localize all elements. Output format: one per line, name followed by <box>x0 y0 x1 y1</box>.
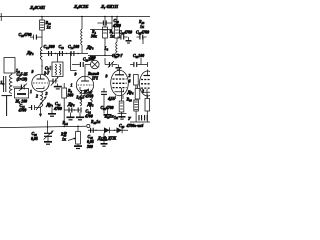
label C26 stack <box>31 132 38 141</box>
label C36 <box>101 106 114 110</box>
capacitor C13 <box>71 51 74 56</box>
svg-text:C₃₀4700: C₃₀4700 <box>119 31 132 35</box>
svg-text:R₄₃: R₄₃ <box>61 133 67 137</box>
right net vertical a <box>121 88 123 101</box>
label output IF <box>87 72 99 81</box>
svg-text:-200: -200 <box>89 56 96 60</box>
tube V3 grids <box>113 79 127 88</box>
label C2 300 <box>44 45 55 49</box>
svg-text:Др₆: Др₆ <box>127 91 135 95</box>
svg-text:Др₂: Др₂ <box>26 50 34 55</box>
svg-text:300: 300 <box>86 145 93 149</box>
svg-text:C₄₆: C₄₆ <box>88 135 94 139</box>
ground after C30 <box>126 37 132 43</box>
capacitor C49 <box>145 115 148 121</box>
wire V3 bottom lead <box>116 96 124 100</box>
svg-text:L₂: L₂ <box>104 47 109 51</box>
label R37 <box>105 115 115 119</box>
capacitor at T1 left <box>48 66 52 70</box>
svg-text:C₃₆4700: C₃₆4700 <box>101 106 114 110</box>
resistor R10 <box>40 20 45 30</box>
svg-text:2: 2 <box>35 95 38 99</box>
tube V4 anode <box>144 70 151 76</box>
capacitor C48 <box>139 115 142 121</box>
wire mid cap row <box>64 109 80 110</box>
svg-text:C₁₁: C₁₁ <box>20 104 25 108</box>
tube label V5 <box>29 5 46 10</box>
IF coil B <box>91 90 93 106</box>
tube V2 envelope <box>76 76 93 93</box>
resistor R4 <box>103 27 108 38</box>
svg-text:30к: 30к <box>90 35 98 39</box>
svg-text:C₂₄: C₂₄ <box>55 102 61 106</box>
svg-text:Др₅: Др₅ <box>67 102 75 107</box>
capacitor C12 <box>60 51 63 56</box>
variable capacitor C26 <box>44 127 54 140</box>
wire right net bottom <box>118 111 151 122</box>
wire below R10 <box>41 30 43 47</box>
svg-text:2: 2 <box>128 74 131 78</box>
top bus wire <box>0 16 150 18</box>
svg-text:2: 2 <box>141 90 144 94</box>
ground mid right <box>104 108 112 117</box>
wire detector row <box>88 130 128 131</box>
capacitor C32 <box>130 58 148 67</box>
label R10 <box>46 21 52 30</box>
wire anode node <box>72 64 80 66</box>
trimmer C5 <box>49 77 58 86</box>
tube V2 pin numbers <box>71 73 85 100</box>
svg-text:Др₁: Др₁ <box>46 102 54 107</box>
node dots on top bus <box>41 16 118 18</box>
svg-text:C₂₈: C₂₈ <box>114 19 120 23</box>
resistor R41 <box>134 100 139 111</box>
tube V1 grid <box>33 82 48 84</box>
svg-text:Др₄: Др₄ <box>87 103 95 107</box>
node on bottom bus <box>47 121 49 128</box>
svg-text:4700: 4700 <box>84 115 93 119</box>
coil L2 <box>116 38 117 55</box>
antenna frame L1 <box>4 58 15 74</box>
label R43 <box>61 133 67 142</box>
wire grid bus y53 <box>40 53 88 54</box>
label R38 <box>127 98 133 102</box>
label -200 <box>89 56 96 60</box>
tube V1 envelope <box>32 74 49 91</box>
label L2 <box>104 47 109 51</box>
label 2 <box>141 90 144 94</box>
label R1 <box>15 100 28 104</box>
label 75 <box>0 0 1 1</box>
svg-text:C₁₃: C₁₃ <box>59 45 65 49</box>
diode D2 <box>117 127 123 133</box>
svg-text:R₁₀: R₁₀ <box>46 21 52 25</box>
connector J1 <box>87 124 90 127</box>
svg-text:Л₆6С3Б: Л₆6С3Б <box>73 4 89 9</box>
svg-text:C₃₂100: C₃₂100 <box>133 54 144 58</box>
label C4 <box>17 73 28 82</box>
ground right net <box>119 117 126 119</box>
svg-text:R₃₈: R₃₈ <box>127 98 133 102</box>
svg-text:4: 4 <box>108 97 111 101</box>
choke Dr2 <box>40 47 42 60</box>
capacitor C29 <box>80 62 90 67</box>
left edge stub wire <box>0 13 2 21</box>
wire y29 <box>90 29 112 31</box>
label C32 <box>0 0 1 1</box>
svg-text:1: 1 <box>30 90 32 94</box>
core of L3 <box>4 76 6 92</box>
ground under C24 <box>67 113 75 120</box>
label R36 <box>87 103 95 107</box>
svg-text:2-7: 2-7 <box>43 72 50 76</box>
bottom bus wire <box>0 126 86 127</box>
tube V4 grids <box>141 80 150 89</box>
label C31 <box>112 54 124 58</box>
variometer arrow <box>36 97 47 111</box>
svg-text:C₃₁2-7: C₃₁2-7 <box>112 54 124 58</box>
IF transformer T1 coils <box>55 64 61 75</box>
svg-text:4700: 4700 <box>18 109 27 113</box>
label Dr1 <box>46 102 54 107</box>
tube V3 anode <box>115 69 124 75</box>
svg-text:C₄₈: C₄₈ <box>119 124 125 128</box>
ground after C31 <box>116 65 122 71</box>
capacitor C45 <box>91 128 94 133</box>
electrode plate wire <box>2 96 13 116</box>
svg-text:C₂₆: C₂₆ <box>32 132 38 136</box>
svg-text:C₃₅: C₃₅ <box>86 90 92 94</box>
label C33 <box>136 31 149 35</box>
capacitor C35 <box>101 88 107 114</box>
svg-text:3: 3 <box>45 92 48 96</box>
label R5 <box>110 30 115 39</box>
svg-text:L₃: L₃ <box>0 81 5 85</box>
svg-text:4700: 4700 <box>112 24 121 28</box>
diode D1 <box>104 127 110 133</box>
svg-text:Выход: Выход <box>87 72 99 76</box>
svg-text:1к: 1к <box>114 116 119 120</box>
tube V3 cathode <box>115 90 124 92</box>
svg-text:ПЧ: ПЧ <box>91 77 99 81</box>
wire choke to tube V1 <box>40 54 43 75</box>
tube label V6 <box>73 4 89 9</box>
svg-text:C₃₃4700: C₃₃4700 <box>136 31 149 35</box>
label C5 <box>43 67 50 76</box>
IF transformer T1 box <box>52 62 63 77</box>
svg-text:1к: 1к <box>62 138 67 142</box>
label row2 cluster <box>119 124 144 128</box>
label L1 <box>15 68 21 73</box>
ground under R43 <box>74 144 82 149</box>
label R4 <box>90 30 98 39</box>
ground under C44 <box>101 140 108 146</box>
choke Dr3 <box>81 17 82 54</box>
wire below R4 <box>104 38 106 56</box>
label C13 <box>68 45 79 49</box>
resistor R5 <box>115 27 120 38</box>
label C47 cluster <box>114 116 132 121</box>
svg-text:0,05: 0,05 <box>87 140 94 144</box>
coil L3 <box>9 73 12 94</box>
wire pot drop <box>77 125 79 131</box>
wire R4 drop <box>104 17 106 28</box>
label Dr2 <box>26 50 34 55</box>
capacitor C10 <box>49 51 52 56</box>
label C34 <box>133 54 144 58</box>
wire V4 bottom lead <box>147 95 149 99</box>
tube V1 pin numbers <box>30 70 48 99</box>
box R1 <box>15 89 29 99</box>
svg-text:R₉: R₉ <box>68 89 73 93</box>
svg-text:9: 9 <box>32 70 34 74</box>
svg-text:C₂₃4700: C₂₃4700 <box>19 33 32 37</box>
label L3 <box>0 81 5 85</box>
svg-text:4700: 4700 <box>85 95 94 99</box>
svg-text:Л₇ 6Ж1П: Л₇ 6Ж1П <box>100 4 119 9</box>
right net vertical b <box>137 86 139 89</box>
svg-text:(2×10): (2×10) <box>17 78 28 82</box>
capacitor C25 <box>78 108 81 113</box>
connector X1 output <box>91 60 100 69</box>
label C29 <box>83 58 94 62</box>
svg-text:C₅: C₅ <box>45 67 50 71</box>
IF coil A <box>80 87 82 106</box>
resistor R39 <box>119 101 124 112</box>
svg-text:Др₃: Др₃ <box>86 45 94 50</box>
svg-text:R₄₈: R₄₈ <box>139 20 145 24</box>
tube V2 grid <box>78 84 93 86</box>
label C28 <box>112 19 121 28</box>
label C46 stack <box>86 135 94 149</box>
wire coil bottom <box>39 107 42 117</box>
label Dr6 <box>127 91 135 95</box>
label C11 <box>18 104 27 113</box>
tube V4 envelope <box>140 71 156 96</box>
wire T1 top leads <box>57 54 59 63</box>
svg-text:R₄: R₄ <box>92 30 97 34</box>
wire R10 drop <box>41 17 43 21</box>
label C34b stack <box>84 110 93 119</box>
wire V2 bottom lead <box>84 94 86 97</box>
label C12 <box>59 45 65 49</box>
ground under C26 <box>44 136 52 144</box>
resistor R42 <box>145 99 150 112</box>
resistor R9 <box>62 83 67 127</box>
svg-text:R₅: R₅ <box>110 30 115 34</box>
svg-text:4700: 4700 <box>53 107 62 111</box>
tube V2 anode <box>81 77 89 81</box>
label C23 <box>19 33 32 37</box>
label C30 <box>119 31 132 35</box>
label C24 <box>53 102 62 111</box>
svg-text:9: 9 <box>106 75 108 79</box>
capacitor C11 <box>29 105 41 110</box>
svg-text:C₁₂300: C₁₂300 <box>44 45 55 49</box>
svg-text:4700о-изб: 4700о-изб <box>126 124 145 128</box>
label R48 <box>139 20 145 29</box>
tube label V7 <box>100 4 119 9</box>
svg-text:9: 9 <box>75 73 77 77</box>
svg-text:300: 300 <box>67 94 74 98</box>
resistor R40 <box>135 89 140 100</box>
capacitor C23 <box>30 35 42 40</box>
capacitor C28 top <box>98 21 113 26</box>
label Dr3 <box>86 45 94 50</box>
label R9 <box>67 89 74 98</box>
svg-text:1: 1 <box>71 84 73 88</box>
label 5 <box>84 90 86 94</box>
label R45 <box>91 120 101 124</box>
arrow out <box>114 54 120 57</box>
svg-text:C₃₄: C₃₄ <box>86 110 92 114</box>
wire R5 drop <box>116 17 118 28</box>
svg-text:C₄5-25: C₄5-25 <box>17 73 28 77</box>
wire AGC line <box>88 55 114 56</box>
wire V2 anode rise <box>84 65 86 78</box>
trimmer C4 <box>13 84 27 92</box>
pin labels 4 5 <box>108 97 116 101</box>
tube V1 anode <box>37 75 45 79</box>
svg-text:R₄₄: R₄₄ <box>63 121 69 125</box>
right net vertical c <box>146 89 148 99</box>
wire tube V2 grid lead <box>70 52 77 70</box>
label Dr5 <box>67 102 75 107</box>
variometer coil L5 <box>41 92 43 107</box>
tube V2 cathode <box>81 89 89 91</box>
capacitor C33 <box>137 35 147 45</box>
svg-text:Л₅6С4П: Л₅6С4П <box>29 5 46 10</box>
svg-text:0,05: 0,05 <box>31 137 38 141</box>
tube V3 envelope <box>111 70 129 96</box>
svg-text:1к: 1к <box>47 26 52 30</box>
ground below coil <box>48 108 56 116</box>
label D1 D2 <box>97 137 117 141</box>
svg-text:R₄₅1к: R₄₅1к <box>91 120 101 124</box>
svg-text:М₁ 100: М₁ 100 <box>15 100 28 104</box>
label C35 stack <box>85 90 94 99</box>
potentiometer R43 <box>68 132 80 145</box>
svg-text:1к: 1к <box>140 25 145 29</box>
wire T1 bottom to ground <box>54 77 62 89</box>
svg-text:У: У <box>128 117 132 121</box>
ground under C25 <box>76 113 84 120</box>
tube V3 pin numbers <box>106 74 131 101</box>
svg-text:1к: 1к <box>110 35 115 39</box>
svg-text:C₁₄100: C₁₄100 <box>68 45 79 49</box>
svg-text:5: 5 <box>113 97 115 101</box>
wire coilB to bus <box>90 106 92 110</box>
capacitor C30 <box>118 35 128 40</box>
wire right drop <box>111 17 113 30</box>
capacitor C24 <box>69 108 72 113</box>
resistor R6 between tubes <box>134 75 139 89</box>
label R44 <box>63 121 69 135</box>
tube V1 cathode <box>36 87 44 89</box>
capacitor C44 <box>101 133 107 140</box>
tube V4 cathode <box>144 90 151 92</box>
svg-text:6: 6 <box>129 80 131 84</box>
trimmer C31 <box>105 58 118 68</box>
